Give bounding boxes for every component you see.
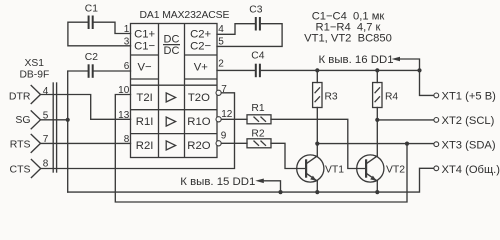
svg-text:К выв. 15 DD1: К выв. 15 DD1 — [180, 176, 255, 188]
resistor R4 — [373, 83, 399, 108]
svg-text:XT4 (Общ.): XT4 (Общ.) — [442, 164, 500, 176]
svg-text:T2I: T2I — [136, 92, 152, 104]
svg-text:V−: V− — [138, 62, 153, 74]
svg-text:DC: DC — [164, 45, 180, 57]
IC driver triangle row T2 — [166, 93, 175, 102]
connector pin RTS contact — [31, 134, 40, 152]
wire VT1 emitter to ground rail — [316, 181, 318, 192]
wire pin 12 R1O to R1 — [222, 118, 248, 120]
node SDA readback junction — [405, 142, 409, 146]
svg-text:RTS: RTS — [10, 138, 31, 150]
svg-text:12: 12 — [221, 109, 233, 120]
wire arrow 15 DD1 to ground rail — [263, 181, 280, 192]
wire R3 top to +5V rail — [316, 70, 318, 82]
svg-text:XT1 (+5 В): XT1 (+5 В) — [442, 91, 497, 103]
svg-text:R1O: R1O — [187, 116, 210, 128]
wire VT2 emitter to ground rail — [376, 181, 378, 192]
svg-text:DA1 MAX232ACSE: DA1 MAX232ACSE — [140, 10, 230, 21]
svg-text:R2O: R2O — [187, 140, 210, 152]
node ground rail 15 DD1 junction — [278, 190, 282, 194]
svg-text:DTR: DTR — [9, 91, 31, 103]
IC driver triangle row R1 — [166, 117, 175, 126]
wire ground rail to XT4 — [68, 168, 434, 192]
svg-text:R1: R1 — [251, 103, 264, 114]
wire R1 to VT2 base — [271, 119, 366, 168]
wire pin 9 R2O to R2 — [222, 142, 248, 144]
capacitor C4 — [251, 51, 264, 78]
svg-text:К выв. 16 DD1: К выв. 16 DD1 — [319, 54, 394, 66]
svg-text:T2O: T2O — [188, 92, 210, 104]
resistor R3 — [313, 83, 338, 108]
arrow to pin 16 DD1 — [392, 57, 401, 62]
svg-text:DC: DC — [164, 34, 180, 46]
capacitor C1 — [85, 4, 98, 30]
node SCL junction on VT2 collector — [375, 118, 379, 122]
IC DC/DC converter cell label — [163, 34, 180, 58]
IC driver triangle row R2 — [166, 141, 175, 150]
resistor R1 — [247, 103, 271, 124]
svg-text:4: 4 — [43, 86, 49, 97]
terminal XT4 circle — [434, 166, 439, 171]
wire RTS to pin 8 R2I — [41, 142, 131, 144]
wire C2 left plate to ground rail (through SG node) — [68, 71, 88, 192]
node R3 top junction — [315, 68, 319, 72]
svg-text:XT2 (SCL): XT2 (SCL) — [442, 115, 495, 127]
wire C3 left plate to pin 4 C2+ — [217, 24, 255, 35]
transistor VT2 — [357, 155, 406, 182]
svg-text:VT1, VT2 BC850: VT1, VT2 BC850 — [304, 33, 392, 45]
svg-text:C1: C1 — [85, 4, 98, 15]
op-amp U1 : IC DA1 MAX232ACSE outer body — [131, 24, 218, 158]
svg-text:C4: C4 — [251, 51, 264, 62]
wire XT1 riser — [420, 70, 435, 95]
wire DTR to pin 13 R1I — [41, 95, 131, 120]
svg-text:V+: V+ — [194, 62, 209, 74]
svg-text:R3: R3 — [325, 91, 338, 102]
svg-text:VT1: VT1 — [325, 164, 344, 175]
svg-text:4: 4 — [218, 24, 224, 35]
terminal XT1 circle — [434, 93, 439, 98]
svg-text:C1+: C1+ — [134, 28, 155, 40]
terminal XT3 circle — [434, 142, 439, 147]
svg-text:VT2: VT2 — [386, 164, 405, 175]
pin 9 inversion circle — [216, 141, 221, 146]
node SDA junction on VT1 collector — [315, 142, 319, 146]
svg-text:2: 2 — [218, 59, 224, 70]
node SG junction dot — [66, 118, 70, 122]
resistor R2 — [247, 128, 271, 148]
wire C3 right plate to pin 5 C2- — [217, 24, 282, 47]
node VT2 emitter junction — [375, 190, 379, 194]
wire C1 right plate to pin 1 C1+ — [93, 22, 130, 33]
svg-text:C1−: C1− — [134, 40, 155, 52]
wire arrow 16 DD1 to +5V rail — [400, 59, 420, 70]
svg-text:R1I: R1I — [136, 116, 154, 128]
svg-text:R1−R4 4,7 к: R1−R4 4,7 к — [316, 21, 381, 33]
pin 12 inversion circle — [216, 117, 221, 122]
svg-text:C2−: C2− — [190, 40, 211, 52]
terminal XT2 circle — [434, 118, 439, 123]
wire R4 top to +5V rail — [376, 70, 378, 82]
wire C2 right plate to pin 6 V- — [93, 70, 130, 72]
svg-text:C3: C3 — [249, 5, 262, 16]
connector XS1 body lines — [53, 83, 56, 172]
node R4 top junction — [375, 68, 379, 72]
transistor VT1 — [297, 155, 345, 182]
svg-text:XS1: XS1 — [25, 58, 45, 69]
svg-text:C2+: C2+ — [190, 28, 211, 40]
arrow to pin 15 DD1 — [255, 179, 263, 184]
wire VT1 collector to R3 — [316, 108, 318, 156]
connector pin CTS contact — [31, 160, 40, 178]
wire SDA: VT1 collector node to XT3 — [317, 143, 434, 145]
wire SG to ground vertical — [41, 119, 68, 121]
wire VT2 collector to R4 — [376, 108, 378, 156]
node VT1 emitter junction — [315, 190, 319, 194]
wire R2 to VT1 base — [271, 143, 306, 168]
connector pin DTR contact — [31, 86, 40, 104]
wire CTS to pin 7 T2O — [41, 93, 235, 169]
capacitor C2 — [85, 52, 98, 78]
wire C1 left plate to pin 3 C1- — [68, 22, 131, 46]
IC cell labels — [134, 28, 211, 152]
svg-text:5: 5 — [218, 36, 224, 47]
capacitor C3 — [249, 5, 262, 31]
svg-text:SG: SG — [15, 114, 30, 126]
svg-text:DB-9F: DB-9F — [20, 70, 50, 81]
svg-text:R4: R4 — [385, 91, 398, 102]
svg-text:XT3 (SDA): XT3 (SDA) — [442, 139, 496, 151]
IC right pin numbers — [218, 24, 232, 142]
wire pin 2 V+ to C4 left plate — [217, 69, 255, 71]
svg-text:CTS: CTS — [10, 163, 31, 175]
svg-text:8: 8 — [43, 158, 49, 169]
connector pin SG contact — [31, 111, 40, 129]
wire +5V rail: C4 right plate to corner — [261, 69, 420, 71]
wire SDA readback: pin 10 T2I down and along bottom up to SDA node — [115, 95, 407, 203]
svg-text:R2: R2 — [251, 128, 264, 139]
wire SCL: VT2 collector node to XT2 — [377, 119, 434, 121]
pin 7 inversion circle — [216, 90, 221, 95]
node +5V rail / XT1 junction — [417, 68, 421, 72]
IC left pin numbers — [118, 24, 130, 145]
svg-text:9: 9 — [221, 131, 227, 142]
svg-text:R2I: R2I — [136, 140, 154, 152]
svg-text:C2: C2 — [85, 52, 98, 63]
